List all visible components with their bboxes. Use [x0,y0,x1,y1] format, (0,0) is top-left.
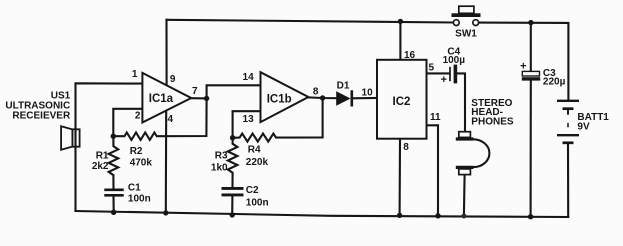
wire top rail right segment and drop to BATT1 [479,23,569,100]
junction dot top rail at pin 16 [398,19,403,24]
junction dot bottom rail at C1 [111,210,116,215]
svg-text:9V: 9V [577,122,590,133]
switch SW1 [452,6,481,39]
wire headphones bottom to rail [463,175,466,216]
svg-text:2: 2 [135,110,141,121]
junction node R1 R2 pin 2 [111,134,116,139]
svg-text:8: 8 [313,86,319,97]
svg-text:IC1b: IC1b [267,93,292,105]
wire C1 stub to bottom rail [112,197,114,213]
svg-text:100n: 100n [246,197,269,208]
svg-text:+: + [441,74,447,86]
junction dot top rail at C3 [528,20,533,25]
junction node IC1a output [204,96,209,101]
svg-text:5: 5 [429,63,435,74]
resistor R2 feedback from IC1a output to pin 2 node [113,98,206,139]
resistor R4 feedback from IC1b output to pin 13 node [233,98,323,142]
svg-text:1: 1 [132,69,138,80]
svg-text:8: 8 [403,142,409,153]
wire IC2 pin 5 to C4 [427,72,450,74]
wire IC1a output pin 7 to node and up to IC1b pin 14 [191,85,261,98]
wire pin 4 drop from IC1a to bottom rail [165,109,167,213]
resistor R1 [109,136,119,189]
junction dot bottom rail at C3 [528,214,533,219]
svg-text:9: 9 [170,74,176,85]
wire pin 2 input to IC1a [113,109,143,136]
svg-text:13: 13 [243,114,255,125]
junction node IC1b output [320,95,325,100]
diode D1 [336,80,352,106]
label C2 100n [246,185,269,208]
svg-text:C1: C1 [128,182,141,193]
IC2 [377,60,427,139]
junction dot bottom rail at pin 8 [397,213,402,218]
svg-text:11: 11 [430,112,441,123]
wire C2 stub to bottom rail [231,196,233,215]
junction node R3 R4 pin 13 [230,135,235,140]
svg-text:7: 7 [192,86,198,97]
svg-text:R4: R4 [248,145,261,156]
svg-text:4: 4 [168,114,174,125]
wire IC2 pin 11 to bottom rail [427,125,439,216]
label C1 100n [128,182,151,204]
svg-text:IC1a: IC1a [149,93,174,105]
wire left column with pin 1 input to IC1a [76,83,144,211]
wire IC2 pin 8 to bottom rail [399,139,401,216]
resistor R3 [228,138,238,187]
svg-text:SW1: SW1 [455,29,477,40]
svg-text:RECEIEVER: RECEIEVER [12,111,71,122]
transducer US1 body [72,129,79,146]
capacitor C1 [104,190,123,196]
wire bottom rail [76,211,569,217]
junction dot bottom rail at C2 [230,212,235,217]
wire pin 13 input to IC1b [233,111,262,137]
svg-text:R3: R3 [215,150,228,161]
battery BATT1 [557,101,609,143]
capacitor C2 [222,188,244,195]
wire top rail left segment [167,20,454,23]
svg-text:10: 10 [362,88,374,99]
junction dot bottom rail at pin 4 [163,210,168,215]
svg-text:220k: 220k [246,157,269,168]
wire C4 to stereo headphones [457,73,465,131]
junction dot bottom rail at headphones [461,214,466,219]
wire battery bottom to rail [567,143,569,217]
label R1 2k2 [92,150,109,172]
wire C3 column top [530,23,532,72]
capacitor C3 [520,61,565,88]
label R3 1k0 [211,150,228,173]
svg-text:470k: 470k [130,157,153,168]
stereo headphones [456,98,514,175]
transducer US1 cone [61,126,72,150]
svg-text:2k2: 2k2 [92,161,109,172]
svg-text:1k0: 1k0 [211,163,228,174]
svg-text:R1: R1 [96,150,109,161]
junction dot bottom rail at pin 11 [435,213,440,218]
op-amp IC1b [261,72,309,122]
svg-text:100n: 100n [128,194,151,205]
wire C3 column bottom [530,81,532,217]
svg-text:IC2: IC2 [393,96,411,108]
svg-text:PHONES: PHONES [471,117,514,128]
svg-text:100µ: 100µ [443,55,466,66]
svg-text:+: + [520,61,526,73]
svg-text:14: 14 [243,72,255,83]
capacitor C4 [441,46,466,86]
svg-text:C2: C2 [246,185,259,196]
wire pin 9 riser from top rail to IC1a [165,20,167,87]
wire IC1b output pin 8 to diode D1 [308,96,336,99]
wire D1 cathode to IC2 pin 10 [352,97,377,99]
svg-text:R2: R2 [130,146,143,157]
label R4 220k [246,145,269,168]
svg-text:220µ: 220µ [543,76,566,87]
label R2 470k [130,146,153,168]
svg-text:D1: D1 [337,80,350,91]
wire pin 16 riser from top rail to IC2 [399,21,401,61]
label US1 ULTRASONIC RECEIEVER [5,90,71,121]
op-amp IC1a [142,73,191,123]
svg-text:16: 16 [404,50,416,61]
